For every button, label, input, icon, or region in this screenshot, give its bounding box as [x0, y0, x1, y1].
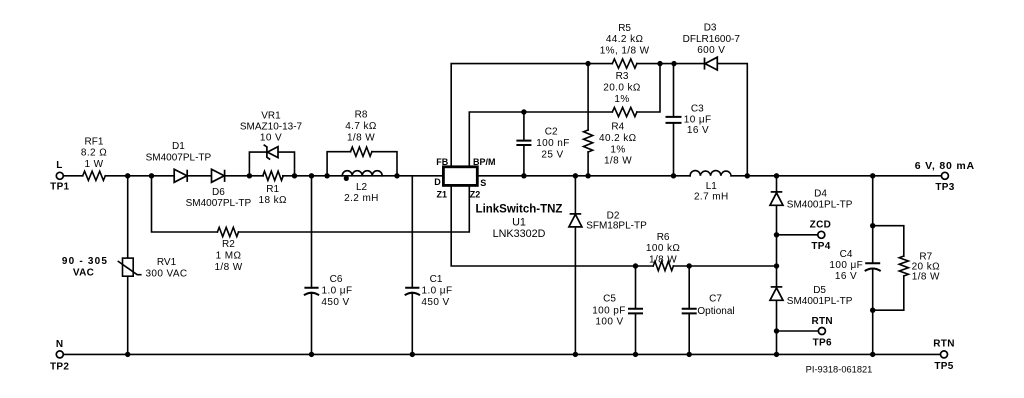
svg-text:450 V: 450 V — [321, 297, 349, 308]
svg-text:VR1: VR1 — [261, 110, 281, 121]
resistor R3 — [612, 107, 637, 116]
svg-text:ZCD: ZCD — [810, 220, 831, 231]
svg-text:SM4007PL-TP: SM4007PL-TP — [186, 198, 252, 209]
svg-text:C4: C4 — [840, 249, 853, 260]
svg-text:1 MΩ: 1 MΩ — [216, 251, 242, 262]
svg-text:D: D — [434, 177, 441, 187]
wire: R5 line right of R5 to D3 and down to main rail — [637, 64, 747, 176]
svg-text:1%, 1/8 W: 1%, 1/8 W — [600, 46, 650, 57]
svg-text:R8: R8 — [355, 110, 368, 121]
svg-text:R1: R1 — [266, 184, 279, 195]
svg-text:90 - 305: 90 - 305 — [62, 256, 108, 267]
wire: C7 vertical — [688, 266, 690, 354]
svg-text:1/8 W: 1/8 W — [214, 262, 242, 273]
svg-text:N: N — [56, 339, 64, 350]
diode D6 SM4007PL-TP — [212, 169, 225, 182]
svg-text:1/8 W: 1/8 W — [604, 156, 632, 167]
svg-text:16 V: 16 V — [687, 125, 709, 136]
svg-text:1%: 1% — [614, 94, 629, 105]
svg-text:Z2: Z2 — [470, 189, 481, 199]
wire: main rail L1 to TP3 — [731, 175, 942, 177]
op-amp/IC U1 LNK3302D box — [443, 167, 477, 186]
svg-text:L: L — [56, 160, 62, 171]
svg-text:8.2 Ω: 8.2 Ω — [81, 148, 107, 159]
wire: ZCD stub to TP4 — [777, 234, 819, 236]
wire: R7 parallel branch — [873, 226, 904, 311]
svg-text:C1: C1 — [430, 274, 443, 285]
wire: BP/M pin up and R3 line to corner up to R5 line — [469, 64, 660, 167]
svg-text:R6: R6 — [657, 232, 670, 243]
diode D4 SM4001PL-TP — [770, 193, 783, 206]
svg-text:SM4001PL-TP: SM4001PL-TP — [787, 200, 853, 211]
wire: C4 vertical branch — [872, 176, 874, 355]
svg-text:100 μF: 100 μF — [829, 260, 863, 271]
diode D2 SFM18PL-TP — [569, 214, 582, 227]
capacitor C5 plates — [628, 309, 643, 314]
capacitor C7 plates — [682, 309, 697, 314]
svg-text:LinkSwitch-TNZ: LinkSwitch-TNZ — [476, 204, 563, 216]
resistor R5 — [612, 59, 637, 68]
svg-text:TP3: TP3 — [935, 182, 954, 193]
resistor RF1 — [83, 171, 106, 180]
svg-text:D5: D5 — [813, 285, 826, 296]
svg-text:SMAZ10-13-7: SMAZ10-13-7 — [240, 121, 303, 132]
resistor R4 — [584, 130, 593, 152]
wire: C3 vertical — [673, 64, 675, 176]
svg-text:R2: R2 — [222, 239, 235, 250]
wire: D2 vertical from main rail to bottom rail — [574, 176, 576, 355]
svg-text:DFLR1600-7: DFLR1600-7 — [683, 34, 741, 45]
svg-text:D6: D6 — [212, 187, 225, 198]
svg-text:40.2 kΩ: 40.2 kΩ — [599, 133, 637, 144]
svg-text:44.2 kΩ: 44.2 kΩ — [606, 34, 644, 45]
svg-text:C6: C6 — [330, 274, 343, 285]
diode D1 SM4007PL-TP — [174, 169, 187, 182]
svg-text:6 V, 80 mA: 6 V, 80 mA — [915, 160, 975, 172]
svg-text:1/8 W: 1/8 W — [912, 271, 940, 282]
inductor L1 — [690, 171, 731, 176]
wire: VR1 parallel box around R1 — [249, 152, 294, 176]
svg-text:Optional: Optional — [697, 306, 734, 317]
svg-text:R4: R4 — [611, 122, 624, 133]
wire: Z1 pin down and R6 line to D4/D5 column — [451, 185, 776, 266]
svg-text:RTN: RTN — [811, 316, 832, 327]
test point terminals — [56, 172, 948, 358]
inductor L2 phasing dot — [344, 176, 349, 181]
svg-text:SM4001PL-TP: SM4001PL-TP — [787, 296, 853, 307]
resistor R1 — [263, 171, 283, 180]
svg-text:BP/M: BP/M — [473, 157, 496, 167]
wire: R8 parallel box around L2 — [327, 152, 397, 176]
svg-text:D1: D1 — [172, 141, 185, 152]
wire: R4 vertical — [587, 64, 589, 176]
wire: RV1 vertical branch — [127, 176, 129, 355]
svg-text:100 kΩ: 100 kΩ — [646, 243, 680, 254]
resistor R8 — [351, 147, 372, 156]
svg-text:1/8 W: 1/8 W — [347, 133, 375, 144]
wire: R2 feedback branch from main rail down and right to Z2 pin — [152, 176, 470, 232]
wire: RTN stub to TP6 — [777, 330, 819, 332]
svg-text:L2: L2 — [356, 182, 368, 193]
svg-text:VAC: VAC — [73, 268, 94, 279]
capacitor C3 plates — [666, 117, 682, 123]
svg-text:TP6: TP6 — [813, 337, 832, 348]
capacitor C1 plates (polarized) — [405, 288, 420, 295]
svg-text:RV1: RV1 — [157, 257, 177, 268]
svg-text:10 V: 10 V — [260, 133, 282, 144]
svg-text:D3: D3 — [704, 22, 717, 33]
zener diode VR1 SMAZ10-13-7 — [267, 147, 278, 158]
svg-text:L1: L1 — [706, 181, 718, 192]
resistor R2 — [217, 227, 238, 236]
svg-text:100 V: 100 V — [595, 317, 623, 328]
svg-text:1%: 1% — [610, 145, 625, 156]
wire: main rail R1 right junction to U1 D pin — [283, 175, 444, 177]
svg-text:SM4007PL-TP: SM4007PL-TP — [146, 152, 212, 163]
svg-text:25 V: 25 V — [541, 149, 563, 160]
svg-text:Z1: Z1 — [437, 189, 448, 199]
svg-text:D4: D4 — [814, 189, 827, 200]
svg-text:100 nF: 100 nF — [536, 138, 570, 149]
wire: main rail D1 to D6 — [188, 175, 212, 177]
diode D5 SM4001PL-TP — [770, 288, 783, 301]
wire: main rail D6 to R1 left junction — [225, 175, 263, 177]
wire: FB pin up and over to R5 line — [451, 64, 588, 167]
svg-text:C5: C5 — [603, 293, 616, 304]
svg-text:4.7 kΩ: 4.7 kΩ — [345, 121, 377, 132]
wire: R5 left lead — [588, 63, 612, 65]
svg-text:C7: C7 — [709, 294, 722, 305]
inductor L2 — [342, 171, 382, 176]
svg-text:20.0 kΩ: 20.0 kΩ — [603, 82, 641, 93]
wire: main L rail from TP1 to D1 — [63, 175, 174, 177]
svg-text:450 V: 450 V — [421, 297, 449, 308]
varistor RV1 — [118, 258, 142, 276]
svg-text:2.7 mH: 2.7 mH — [694, 192, 729, 203]
svg-text:R3: R3 — [616, 71, 629, 82]
svg-text:TP5: TP5 — [934, 361, 953, 372]
svg-text:16 V: 16 V — [835, 271, 857, 282]
resistor R7 — [899, 256, 908, 276]
diode D3 DFLR1600-7 — [705, 57, 717, 70]
svg-text:LNK3302D: LNK3302D — [493, 228, 546, 240]
svg-text:600 V: 600 V — [697, 45, 725, 56]
svg-text:300 VAC: 300 VAC — [145, 269, 187, 280]
svg-text:18 kΩ: 18 kΩ — [259, 195, 288, 206]
wire: D4/D5 column — [776, 176, 778, 355]
wire: C1 vertical branch — [411, 176, 413, 355]
svg-text:C2: C2 — [545, 127, 558, 138]
svg-text:U1: U1 — [512, 217, 526, 229]
wire: C6 vertical branch — [311, 176, 313, 355]
wire: bottom N rail TP2 to TP5 — [63, 353, 941, 355]
wire: C2 vertical — [523, 112, 525, 176]
svg-text:PI-9318-061821: PI-9318-061821 — [806, 365, 873, 375]
svg-text:RF1: RF1 — [85, 136, 104, 147]
svg-text:SFM18PL-TP: SFM18PL-TP — [586, 221, 647, 232]
capacitor C2 plates — [516, 141, 531, 145]
capacitor C4 plates (polarized) — [865, 263, 881, 271]
svg-text:2.2 mH: 2.2 mH — [344, 193, 379, 204]
svg-text:RTN: RTN — [933, 339, 954, 350]
svg-text:TP1: TP1 — [50, 181, 69, 192]
svg-text:TP2: TP2 — [50, 362, 69, 373]
capacitor C6 plates (polarized) — [304, 288, 319, 295]
svg-text:C3: C3 — [691, 103, 704, 114]
svg-text:R5: R5 — [618, 23, 631, 34]
svg-text:1.0 μF: 1.0 μF — [422, 286, 453, 297]
svg-text:1.0 μF: 1.0 μF — [322, 286, 353, 297]
svg-text:FB: FB — [436, 157, 448, 167]
resistor R6 — [653, 261, 673, 270]
svg-text:1/8 W: 1/8 W — [649, 254, 677, 265]
wire: main rail U1 S pin to L1 — [477, 175, 690, 177]
svg-text:TP4: TP4 — [811, 241, 830, 252]
wire: C5 vertical — [635, 266, 637, 354]
svg-text:S: S — [480, 178, 486, 188]
svg-text:1 W: 1 W — [85, 159, 104, 170]
svg-text:100 pF: 100 pF — [592, 306, 626, 317]
